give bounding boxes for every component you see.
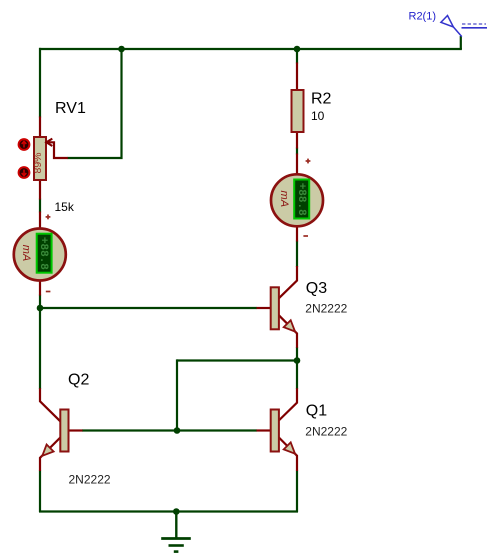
wire bottom horizontal [39,510,298,512]
svg-text:Q1: Q1 [306,402,327,419]
ammeter AM2 [271,154,323,242]
svg-text:2N2222: 2N2222 [69,473,111,487]
AM1 minus mark [46,291,51,293]
wire wiper to top rail [68,48,122,158]
svg-text:+88.8: +88.8 [37,237,49,270]
node junction ground [173,508,180,515]
node junction base wire [174,427,181,434]
svg-text:Q2: Q2 [68,372,89,389]
resistor R2 [292,63,304,149]
RV1 down button [19,167,30,178]
svg-text:89%: 89% [32,152,44,173]
wire Q1 emitter down [296,471,298,513]
wire Q2 emitter down [39,471,41,513]
wire Q2-Q1 base [82,429,257,431]
wire probe stub vertical [460,36,462,49]
svg-text:R2: R2 [311,91,332,108]
svg-text:2N2222: 2N2222 [305,424,347,438]
svg-text:10: 10 [311,109,325,123]
wire R2 top [296,48,298,64]
potentiometer RV1 [32,117,68,200]
wire top horizontal [39,48,462,50]
ground [161,512,191,552]
AM2 minus mark [303,235,308,237]
wire feedback horizontal [177,359,297,361]
svg-text:15k: 15k [55,200,75,214]
transistor Q1 [257,388,298,471]
svg-text:mA: mA [278,191,290,208]
wire left rail middle [39,295,41,390]
AM1 plus mark [46,215,51,220]
wire feedback vertical [176,359,178,430]
wire Q3 emitter to Q1 collector [296,347,298,389]
svg-text:Q3: Q3 [306,280,327,297]
svg-text:mA: mA [20,245,32,262]
svg-text:+88.8: +88.8 [295,183,307,216]
ammeter AM1 [14,212,66,296]
wire RV1 to ammeter1 [39,199,41,213]
node junction top-right [294,46,301,53]
AM2 plus mark [306,159,311,164]
node junction Q3 base tap [37,305,44,312]
wire left rail upper [39,48,41,118]
svg-text:2N2222: 2N2222 [305,301,347,315]
svg-text:RV1: RV1 [55,100,86,117]
transistor Q3 [257,266,298,348]
wire Q3 base [39,307,257,309]
RV1 up button [19,139,30,150]
transistor Q2 [40,388,83,471]
node junction top-left [118,46,125,53]
voltage probe R2(1) [441,16,487,37]
svg-text:R2(1): R2(1) [409,11,437,23]
wire R2 to ammeter2 [296,148,298,155]
wire ammeter2 to Q3 collector [296,241,298,268]
node junction Q3 emitter [294,357,301,364]
